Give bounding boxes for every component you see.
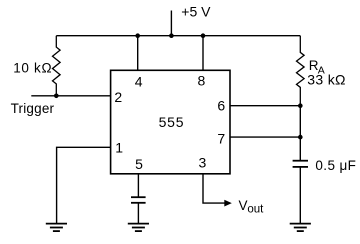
wire: top supply rail — [56, 35, 300, 37]
svg-text:V: V — [239, 198, 248, 213]
svg-text:5: 5 — [135, 156, 143, 172]
svg-text:1: 1 — [115, 139, 123, 155]
svg-text:0.5 μF: 0.5 μF — [315, 158, 356, 173]
ground: center — [128, 224, 149, 232]
node: junction dot rail/pin4 — [135, 33, 140, 38]
node: junction dot pin7/capacitor — [298, 135, 303, 140]
node: junction dot pin6/RA — [298, 103, 303, 108]
wire: pin 6 to node — [230, 105, 300, 107]
op-amp U1: 555 timer IC body — [111, 70, 230, 174]
capacitor C1 (pin 5 bypass) — [131, 197, 146, 203]
capacitor C2 (0.5 uF) — [293, 161, 308, 167]
wire: pin 3 output — [203, 174, 226, 203]
label Vout — [239, 198, 265, 216]
svg-text:Trigger: Trigger — [11, 101, 55, 116]
wire: trigger to pin 2 — [31, 95, 110, 97]
svg-text:7: 7 — [217, 130, 225, 146]
wire: pin 4 drop from rail — [137, 36, 139, 71]
svg-text:6: 6 — [217, 98, 225, 114]
svg-text:2: 2 — [114, 89, 122, 105]
wire: capacitor C2 to ground — [299, 167, 301, 224]
wire: pin 5 to capacitor — [137, 174, 139, 197]
wire: node pin6 to node pin7 — [299, 106, 301, 137]
svg-text:out: out — [247, 203, 264, 215]
svg-text:3: 3 — [199, 155, 207, 171]
wire: pin 8 drop from rail — [202, 36, 204, 71]
svg-text:10 kΩ: 10 kΩ — [13, 61, 52, 76]
resistor RA (33 kOhm) — [296, 36, 304, 106]
wire: +5V stub — [170, 11, 172, 36]
wire: node pin7 to capacitor C2 — [299, 137, 301, 161]
svg-text:33 kΩ: 33 kΩ — [307, 71, 346, 87]
svg-text:555: 555 — [159, 114, 185, 130]
wire: capacitor C1 to ground — [137, 203, 139, 224]
node: junction dot rail/+5V — [169, 33, 174, 38]
node: junction dot trigger/resistor — [54, 94, 59, 99]
ground: right — [290, 224, 311, 232]
arrowhead output — [224, 200, 232, 207]
label RA — [309, 58, 325, 77]
node: junction dot rail/pin8 — [201, 33, 206, 38]
wire: pin 7 to node — [230, 136, 300, 138]
ground: left — [46, 224, 67, 232]
svg-text:8: 8 — [198, 73, 206, 89]
svg-text:4: 4 — [135, 74, 143, 90]
wire: pin 1 to ground — [57, 147, 111, 223]
svg-text:+5 V: +5 V — [181, 3, 211, 19]
resistor R (10 kOhm) — [53, 36, 61, 96]
